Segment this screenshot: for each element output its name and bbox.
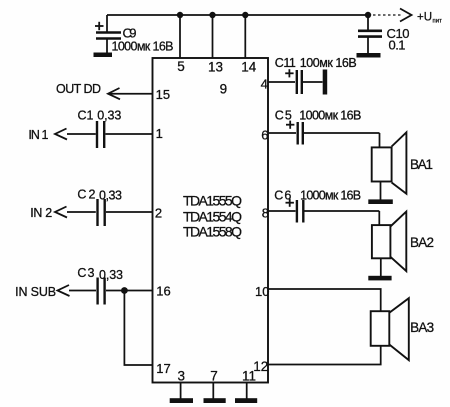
junction: pin16 / pin17 tie	[121, 287, 128, 294]
svg-text:C6: C6	[274, 188, 291, 202]
label: pin 12	[253, 359, 268, 374]
svg-text:1000мк 16В: 1000мк 16В	[299, 108, 361, 122]
svg-text:2: 2	[155, 205, 162, 220]
ground: C10 ground bar	[357, 53, 381, 58]
svg-text:C9: C9	[123, 26, 137, 41]
label: pin 8	[262, 206, 269, 221]
label: BA3 designator	[410, 320, 434, 335]
svg-text:12: 12	[253, 359, 268, 374]
capacitor C3	[69, 278, 153, 305]
svg-text:IN 2: IN 2	[30, 206, 52, 220]
svg-text:BA2: BA2	[410, 235, 434, 250]
node: OUT DD arrow	[108, 88, 120, 99]
svg-text:1000мк 16В: 1000мк 16В	[112, 40, 174, 54]
wire: C5 to BA1	[379, 133, 381, 147]
label: C1 designator	[78, 108, 94, 122]
junction: rail / pin14 column	[242, 12, 248, 18]
label: pin 1	[156, 126, 163, 141]
label: pin 16	[156, 284, 170, 299]
svg-text:C11: C11	[275, 56, 296, 70]
wire: pin 5 to supply rail	[179, 15, 181, 58]
junction: rail / C10	[365, 12, 371, 18]
wire: C6 to BA2	[378, 211, 380, 225]
svg-text:IN SUB: IN SUB	[15, 285, 56, 299]
op-amp U1: TDA155x quad amplifier IC body	[153, 58, 269, 383]
ground: C9 ground bar	[94, 53, 113, 58]
wire: pin 3 ground stub	[180, 383, 182, 399]
label: pin 5	[177, 59, 185, 74]
label: OUT DD net name	[56, 82, 101, 96]
svg-text:5: 5	[177, 59, 185, 74]
junction: rail / pin5 column	[177, 12, 183, 18]
svg-text:0,33: 0,33	[97, 109, 121, 123]
label: pin 14	[241, 59, 257, 74]
capacitor C1	[67, 121, 153, 148]
capacitor C11	[268, 69, 323, 94]
wire: pin 10 to BA3	[268, 289, 381, 311]
label: C5 designator	[275, 108, 292, 122]
wire: +V supply rail	[107, 14, 368, 16]
svg-text:6: 6	[261, 127, 268, 142]
svg-text:TDA1558Q: TDA1558Q	[183, 224, 242, 240]
label: pin 10	[255, 284, 269, 299]
svg-text:1: 1	[156, 126, 163, 141]
label: BA2 designator	[410, 235, 434, 250]
junction: rail / pin13 column	[209, 12, 215, 18]
ground: BA1 ground bar	[368, 199, 393, 204]
label: pin 2	[155, 205, 162, 220]
svg-text:C1: C1	[78, 108, 94, 122]
label: C2 designator	[77, 188, 95, 202]
label: C2 value 0,33	[99, 189, 122, 203]
svg-text:17: 17	[156, 361, 170, 376]
label: BA1 designator	[410, 157, 433, 172]
svg-text:пит: пит	[433, 19, 443, 25]
label: C11 designator	[275, 56, 296, 70]
svg-text:IN 1: IN 1	[28, 128, 48, 142]
label: IC type TDA1555Q	[183, 193, 242, 209]
label: pin 13	[208, 59, 223, 74]
label: C6 designator	[274, 188, 291, 202]
svg-text:3: 3	[178, 369, 186, 384]
svg-text:BA3: BA3	[410, 320, 434, 335]
ground: C11 ground bar	[323, 70, 328, 95]
wire: pin 13 to supply rail	[212, 15, 214, 58]
wire: pin 12 to BA3	[268, 346, 381, 365]
wire: pin 15 OUT DD line	[109, 93, 153, 95]
wire: BA2 to ground	[380, 258, 382, 276]
label: pin 9	[220, 82, 228, 97]
svg-text:BA1: BA1	[410, 157, 433, 172]
label: C3 value 0,33	[99, 268, 123, 282]
label: IN 2 net name	[30, 206, 52, 220]
svg-text:0,33: 0,33	[99, 268, 123, 282]
svg-text:7: 7	[210, 369, 218, 384]
label: C10 value 0.1	[389, 38, 406, 53]
speaker BA2	[372, 212, 406, 272]
svg-text:OUT DD: OUT DD	[56, 82, 101, 96]
label: C10 designator	[387, 26, 410, 41]
label: pin 11	[242, 369, 256, 384]
wire: junction down to pin 17	[124, 291, 152, 366]
ground: pin 3 ground bar	[170, 398, 193, 403]
wire: BA1 to ground	[380, 182, 382, 200]
node: IN 1 arrow	[55, 129, 67, 140]
label: pin 6	[261, 127, 268, 142]
svg-text:8: 8	[262, 206, 269, 221]
wire: rail dotted segment to supply arrow	[368, 14, 401, 16]
svg-text:13: 13	[208, 59, 223, 74]
svg-text:C5: C5	[275, 108, 292, 122]
capacitor C9	[95, 15, 121, 73]
label: pin 7	[210, 369, 218, 384]
label: IC type TDA1558Q	[183, 224, 242, 240]
node: +Upit supply arrow	[400, 9, 412, 22]
svg-text:C2: C2	[77, 188, 95, 202]
label: +Upit net name	[417, 12, 442, 25]
svg-text:1000мк 16В: 1000мк 16В	[300, 188, 361, 202]
ground: BA2 ground bar	[368, 276, 391, 281]
svg-text:15: 15	[156, 87, 170, 102]
wire: pin 7 ground stub	[212, 383, 214, 399]
ground: pin 7 ground bar	[204, 398, 226, 403]
svg-text:16: 16	[156, 284, 170, 299]
label: pin 3	[178, 369, 186, 384]
capacitor C10	[358, 15, 382, 53]
svg-text:100мк 16В: 100мк 16В	[300, 56, 357, 70]
label: C6 value 1000mk 16V	[300, 188, 361, 202]
svg-text:0,33: 0,33	[99, 189, 122, 203]
label: pin 15	[156, 87, 170, 102]
capacitor C6	[268, 199, 379, 223]
label: C5 value 1000mk 16V	[299, 108, 361, 122]
svg-text:10: 10	[255, 284, 269, 299]
node: IN SUB arrow	[58, 285, 70, 296]
svg-text:4: 4	[261, 76, 268, 91]
label: C9 designator	[123, 26, 137, 41]
label: IN SUB net name	[15, 285, 56, 299]
label: C9 value 1000mk 16V	[112, 40, 174, 54]
wire: pin 11 ground stub	[246, 383, 248, 399]
capacitor C2	[67, 199, 153, 226]
label: C3 designator	[77, 266, 94, 280]
node: IN 2 arrow	[55, 207, 67, 218]
label: pin 4	[261, 76, 268, 91]
speaker BA1	[372, 132, 407, 193]
label: pin 17	[156, 361, 170, 376]
label: C1 value 0,33	[97, 109, 121, 123]
label: IC type TDA1554Q	[183, 208, 242, 224]
svg-text:14: 14	[241, 59, 257, 74]
svg-text:C3: C3	[77, 266, 94, 280]
label: IN 1 net name	[28, 128, 48, 142]
ground: pin 11 ground bar	[235, 398, 257, 403]
label: C11 value 100mk 16V	[300, 56, 357, 70]
wire: pin 14 to supply rail	[244, 15, 246, 58]
svg-text:TDA1555Q: TDA1555Q	[183, 193, 242, 209]
speaker BA3	[371, 298, 409, 360]
svg-text:0.1: 0.1	[389, 38, 406, 53]
svg-text:+U: +U	[417, 12, 432, 24]
capacitor C5	[268, 121, 380, 145]
svg-text:TDA1554Q: TDA1554Q	[183, 208, 242, 224]
svg-text:9: 9	[220, 82, 228, 97]
